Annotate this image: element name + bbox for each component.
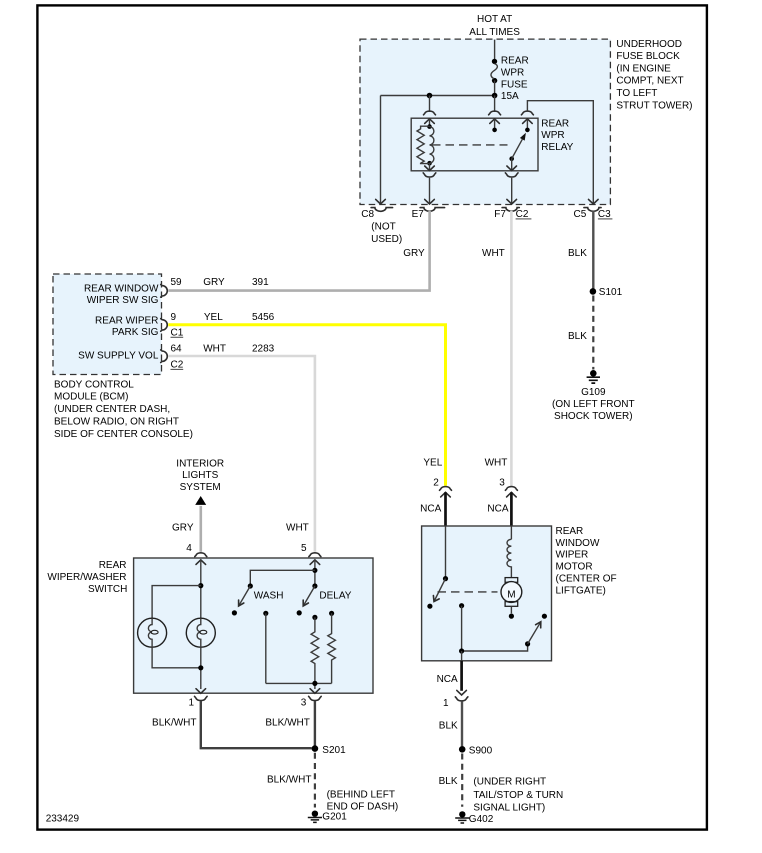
- svg-text:WIPER: WIPER: [556, 550, 589, 561]
- pin 59 row labels: [171, 277, 270, 288]
- wire WHT: F7/C2 to wiper motor pin 3: [510, 211, 513, 486]
- svg-text:FUSE: FUSE: [501, 80, 528, 91]
- svg-text:REAR: REAR: [501, 55, 529, 66]
- wire BLK dashed to G109: [592, 296, 594, 370]
- svg-text:9: 9: [171, 312, 177, 323]
- wire GRY: interior lights to switch pin 4: [200, 506, 203, 552]
- svg-text:WHT: WHT: [203, 344, 226, 355]
- svg-text:GRY: GRY: [403, 248, 425, 259]
- wire: fuse output bus: [381, 80, 495, 95]
- wire YEL: BCM pin 9 to wiper motor pin 2: [168, 325, 445, 486]
- svg-text:HOT AT: HOT AT: [477, 14, 512, 25]
- svg-text:3: 3: [301, 697, 307, 708]
- BCM location label: [54, 379, 193, 440]
- wire: pin 2 to park switch: [445, 526, 447, 579]
- svg-text:2: 2: [433, 477, 439, 488]
- svg-text:PARK SIG: PARK SIG: [112, 327, 159, 338]
- relay coil output to E7: [423, 163, 436, 204]
- svg-text:BLK/WHT: BLK/WHT: [265, 718, 309, 729]
- relay coil winding: [430, 127, 434, 164]
- svg-text:SIGNAL LIGHT): SIGNAL LIGHT): [473, 803, 545, 814]
- svg-text:C8: C8: [361, 209, 374, 220]
- svg-text:GRY: GRY: [172, 522, 194, 533]
- svg-text:FUSE BLOCK: FUSE BLOCK: [616, 51, 680, 62]
- junction dot on bus: [427, 93, 433, 99]
- fuse block bottom connector row C8: [371, 208, 393, 212]
- wash switch arm: [232, 583, 284, 615]
- svg-text:3: 3: [499, 477, 505, 488]
- body control module BCM (dashed box): [53, 274, 162, 375]
- svg-text:RELAY: RELAY: [541, 142, 573, 153]
- BCM pin 9 connector: [161, 319, 168, 332]
- wire BLK/WHT dashed to G201: [314, 753, 316, 808]
- wire: lamp bottoms join: [152, 647, 201, 689]
- svg-text:WHT: WHT: [286, 522, 309, 533]
- svg-text:TAIL/STOP & TURN: TAIL/STOP & TURN: [473, 790, 563, 801]
- svg-text:(ON LEFT FRONT: (ON LEFT FRONT: [552, 399, 635, 410]
- motor pin 1 connector: [455, 697, 468, 701]
- svg-text:233429: 233429: [46, 813, 80, 824]
- BCM pin 64 connector: [161, 350, 168, 363]
- wire WHT: BCM pin 64 to switch pin 5: [168, 356, 315, 552]
- svg-text:1: 1: [188, 697, 194, 708]
- svg-text:NCA: NCA: [487, 504, 508, 515]
- svg-text:REAR: REAR: [99, 560, 127, 571]
- svg-text:BODY CONTROL: BODY CONTROL: [54, 379, 134, 390]
- motor pin 2 inline connector: [440, 487, 452, 526]
- svg-text:G201: G201: [322, 812, 347, 823]
- svg-text:REAR: REAR: [556, 526, 584, 537]
- svg-text:2283: 2283: [252, 344, 275, 355]
- svg-text:NCA: NCA: [420, 504, 441, 515]
- wire: relay switch pin to C5: [527, 101, 593, 204]
- svg-text:BELOW RADIO, ON RIGHT: BELOW RADIO, ON RIGHT: [54, 417, 179, 428]
- svg-text:WINDOW: WINDOW: [556, 538, 600, 549]
- wire: motor ground output: [461, 651, 463, 661]
- svg-text:WPR: WPR: [501, 68, 524, 79]
- junction dot under fuse: [492, 93, 498, 99]
- svg-text:S101: S101: [599, 287, 623, 298]
- wire BLK/WHT: pin 3 to S201: [314, 701, 316, 748]
- indicator lamp L1: [138, 618, 167, 647]
- connector E7: [420, 208, 445, 212]
- svg-text:YEL: YEL: [204, 312, 223, 323]
- pin 1 connector below box: [195, 696, 208, 700]
- pin 64 row labels: [171, 344, 275, 371]
- svg-text:REAR WINDOW: REAR WINDOW: [84, 283, 159, 294]
- svg-text:(NOT: (NOT: [371, 221, 395, 232]
- rear window wiper motor box: [422, 526, 552, 661]
- rear wiper/washer switch box: [134, 558, 373, 693]
- svg-text:(UNDER RIGHT: (UNDER RIGHT: [473, 777, 546, 788]
- svg-text:59: 59: [171, 277, 183, 288]
- svg-text:5456: 5456: [252, 312, 275, 323]
- connector on relay switch pin: [521, 111, 533, 130]
- svg-text:BLK: BLK: [439, 721, 458, 732]
- BCM pin 59 connector: [161, 285, 168, 298]
- splice S900: [459, 745, 493, 756]
- svg-text:BLK/WHT: BLK/WHT: [152, 718, 196, 729]
- fuse F15A (REAR WPR FUSE): [491, 55, 529, 102]
- pin labels C8 E7 F7 C2 C5 C3: [361, 209, 612, 220]
- svg-text:S900: S900: [469, 745, 493, 756]
- svg-text:1: 1: [443, 698, 449, 709]
- resistor R1 (delay, left): [311, 615, 319, 684]
- svg-text:SHOCK TOWER): SHOCK TOWER): [554, 411, 633, 422]
- resistor R2 (right): [328, 611, 336, 684]
- pin 1 exit arrow: [196, 689, 206, 694]
- wire: bottom bus to pin 3: [266, 683, 332, 689]
- svg-text:NCA: NCA: [437, 674, 458, 685]
- pin 9 row labels: [171, 312, 275, 339]
- svg-text:F7: F7: [494, 209, 506, 220]
- underhood fuse block (dashed box): [360, 39, 610, 204]
- node HOT AT ALL TIMES: [469, 14, 520, 38]
- svg-text:COMPT, NEXT: COMPT, NEXT: [616, 76, 683, 87]
- wire GRY: E7 to BCM pin 59: [168, 211, 429, 291]
- relay switch output to F7: [505, 159, 518, 204]
- relay U1 box (REAR WPR RELAY): [411, 118, 538, 171]
- park switch arm (left): [427, 576, 448, 609]
- node INTERIOR LIGHTS SYSTEM: [176, 458, 224, 505]
- relay actuator dashed link: [432, 144, 508, 146]
- svg-text:5: 5: [301, 543, 307, 554]
- svg-text:S201: S201: [322, 745, 346, 756]
- svg-text:MOTOR: MOTOR: [556, 562, 593, 573]
- svg-text:YEL: YEL: [423, 458, 442, 469]
- svg-text:ALL TIMES: ALL TIMES: [469, 27, 520, 38]
- svg-text:391: 391: [252, 277, 269, 288]
- ground G109: [552, 370, 635, 422]
- svg-text:WHT: WHT: [485, 458, 508, 469]
- svg-text:BLK/WHT: BLK/WHT: [267, 775, 311, 786]
- svg-text:64: 64: [171, 344, 183, 355]
- junction to left lamp branch: [198, 583, 203, 588]
- run switch arm (right): [525, 614, 547, 647]
- motor M1 (brushes + armature): [501, 578, 522, 619]
- relay coil resistor zigzag: [417, 126, 430, 163]
- svg-text:DELAY: DELAY: [319, 591, 351, 602]
- svg-text:WIPER SW SIG: WIPER SW SIG: [87, 295, 159, 306]
- svg-text:INTERIOR: INTERIOR: [176, 458, 224, 469]
- svg-text:(IN ENGINE: (IN ENGINE: [616, 63, 671, 74]
- svg-text:SIDE OF CENTER CONSOLE): SIDE OF CENTER CONSOLE): [54, 429, 193, 440]
- wash branch wire: [250, 570, 315, 586]
- svg-text:WPR: WPR: [541, 130, 564, 141]
- wire: fuse to relay center pin + connector: [489, 96, 501, 130]
- wire: wash output down: [263, 611, 268, 616]
- svg-text:15A: 15A: [501, 91, 519, 102]
- svg-text:LIGHTS: LIGHTS: [182, 470, 218, 481]
- svg-text:SW SUPPLY VOL: SW SUPPLY VOL: [78, 351, 159, 362]
- ground G402: [455, 811, 494, 825]
- connector F7/C2: [502, 208, 519, 212]
- svg-text:SWITCH: SWITCH: [88, 584, 127, 595]
- svg-text:END OF DASH): END OF DASH): [327, 801, 399, 812]
- svg-text:M: M: [507, 590, 515, 601]
- wire: park contact to output: [459, 603, 528, 654]
- wire: pin 4 through lamps: [200, 560, 202, 618]
- svg-text:G402: G402: [469, 814, 494, 825]
- svg-text:USED): USED): [371, 234, 402, 245]
- wire: hot feed into fuse: [494, 40, 496, 62]
- svg-text:(BEHIND LEFT: (BEHIND LEFT: [327, 789, 395, 800]
- wire: branch to C8: [376, 96, 386, 205]
- svg-text:MODULE (BCM): MODULE (BCM): [54, 392, 128, 403]
- wire: pin 3 to motor winding: [510, 526, 512, 539]
- svg-text:TO LEFT: TO LEFT: [616, 88, 657, 99]
- splice S201: [312, 745, 346, 756]
- delay switch arm: [297, 583, 352, 615]
- underhood fuse block label: [616, 39, 692, 112]
- relay coil terminals: [427, 124, 432, 129]
- relay U1 label: [541, 118, 573, 152]
- switch pin 5 connector: [309, 553, 321, 565]
- motor pin 3 inline connector: [505, 487, 517, 526]
- wire: pin 5 into switch: [314, 560, 316, 586]
- svg-text:GRY: GRY: [203, 277, 225, 288]
- relay center pin stub: [492, 128, 497, 133]
- svg-text:4: 4: [186, 543, 192, 554]
- svg-text:STRUT TOWER): STRUT TOWER): [616, 100, 692, 111]
- svg-text:BLK: BLK: [439, 776, 458, 787]
- splice S101: [590, 287, 623, 298]
- svg-text:E7: E7: [412, 209, 425, 220]
- svg-text:REAR: REAR: [541, 118, 569, 129]
- svg-text:WIPER/WASHER: WIPER/WASHER: [47, 572, 126, 583]
- wire BLK dashed to G402: [461, 754, 463, 807]
- switch pin 4 connector: [195, 553, 207, 565]
- svg-text:LIFTGATE): LIFTGATE): [556, 585, 606, 596]
- svg-text:(UNDER CENTER DASH,: (UNDER CENTER DASH,: [54, 404, 170, 415]
- ground G201: [308, 811, 347, 823]
- svg-text:REAR WIPER: REAR WIPER: [95, 316, 158, 327]
- wire BLK: motor pin 1 to S900: [461, 701, 463, 746]
- svg-text:WASH: WASH: [254, 591, 284, 602]
- svg-text:SYSTEM: SYSTEM: [180, 482, 221, 493]
- svg-text:G109: G109: [581, 387, 606, 398]
- svg-text:BLK: BLK: [568, 331, 587, 342]
- relay switch arm: [509, 128, 529, 161]
- connector C5/C3: [584, 208, 601, 212]
- wire BLK: C5/C3 to S101: [592, 211, 594, 289]
- indicator lamp L2: [186, 618, 215, 647]
- svg-text:WHT: WHT: [482, 248, 505, 259]
- pin 3 connector below box: [309, 696, 322, 700]
- motor armature winding: [507, 539, 511, 577]
- svg-text:C5: C5: [574, 209, 587, 220]
- svg-text:(CENTER OF: (CENTER OF: [556, 574, 617, 585]
- wire: bus to relay coil pin + connector: [424, 96, 436, 127]
- svg-text:BLK: BLK: [568, 248, 587, 259]
- wire BLK/WHT: pin 1 to S201: [201, 701, 312, 748]
- svg-text:UNDERHOOD: UNDERHOOD: [616, 39, 682, 50]
- motor actuator dashed link: [438, 591, 498, 593]
